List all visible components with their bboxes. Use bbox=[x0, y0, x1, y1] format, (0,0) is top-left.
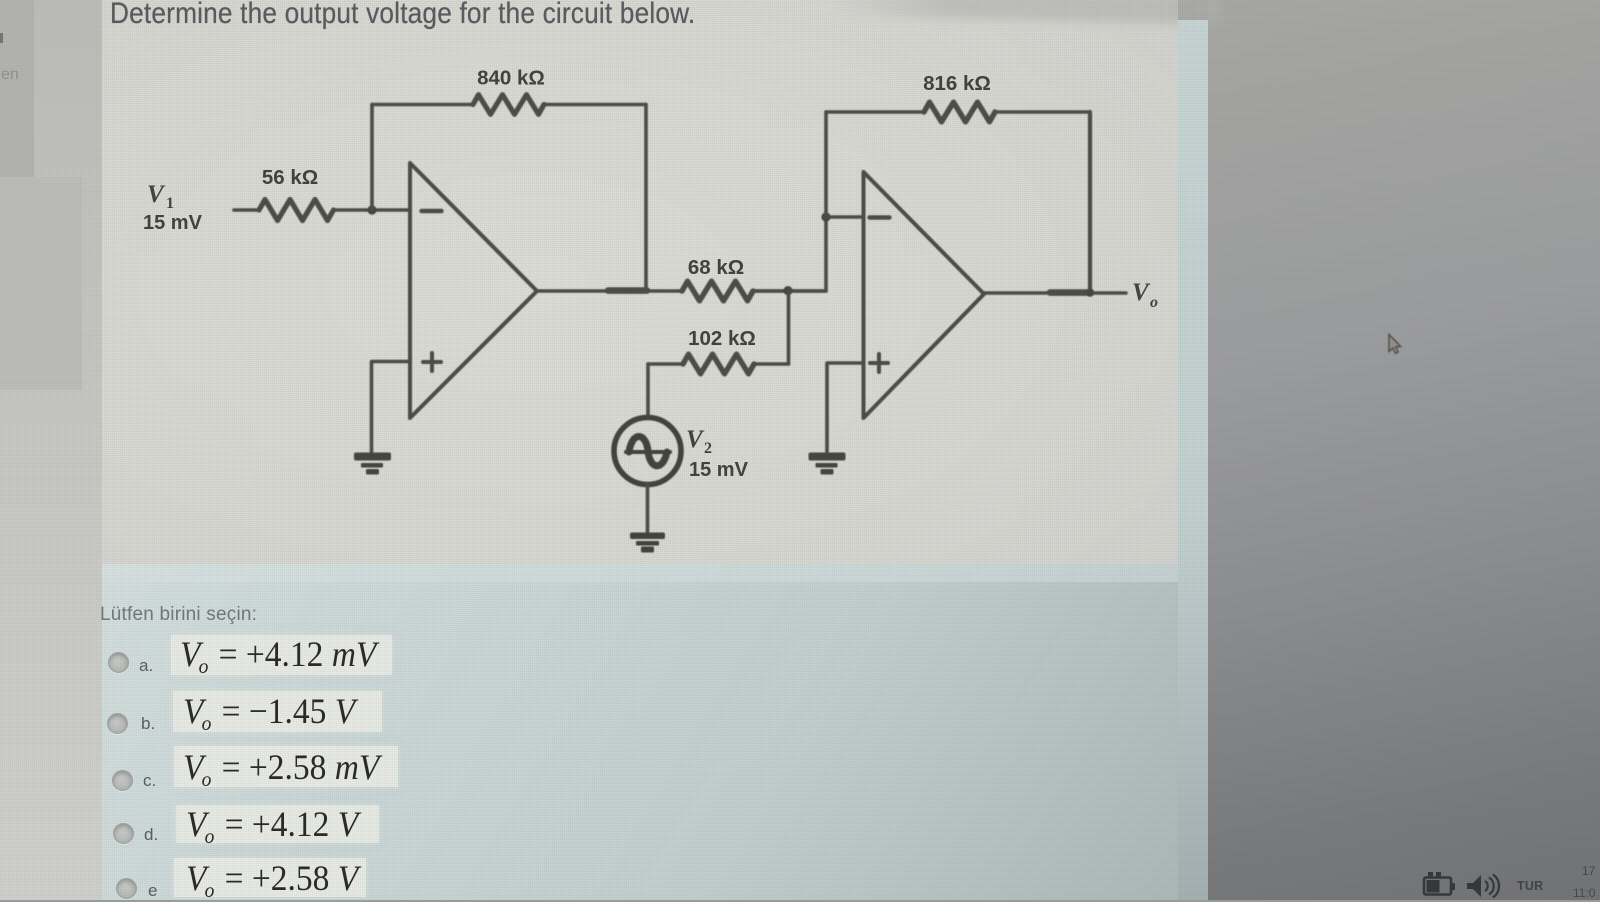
svg-text:816 kΩ: 816 kΩ bbox=[923, 72, 991, 95]
svg-text:o: o bbox=[1150, 294, 1158, 311]
svg-text:840 kΩ: 840 kΩ bbox=[477, 67, 545, 90]
wire feedback top left U1 bbox=[372, 103, 473, 107]
wire 102k right lead bbox=[754, 362, 789, 366]
node B junction dot bbox=[783, 286, 792, 295]
svg-text:102 kΩ: 102 kΩ bbox=[688, 327, 756, 350]
wire U1 output thick segment bbox=[608, 287, 647, 294]
svg-text:68 kΩ: 68 kΩ bbox=[688, 256, 744, 279]
node A junction dot bbox=[367, 205, 376, 214]
source V2 circle bbox=[614, 418, 681, 485]
U1 plus pin label bbox=[423, 353, 441, 371]
wire node B to U2 riser bbox=[824, 217, 828, 291]
svg-text:V: V bbox=[686, 426, 705, 453]
option e bbox=[116, 878, 137, 899]
U2 plus pin label bbox=[870, 354, 888, 372]
wire U2 noninverting to ground bbox=[827, 363, 864, 452]
svg-text:2: 2 bbox=[704, 440, 712, 457]
wire U1 noninverting to ground bbox=[372, 362, 411, 453]
wire node C to U2 inverting input bbox=[826, 215, 863, 219]
U1 minus pin label bbox=[422, 209, 442, 213]
svg-text:V: V bbox=[1132, 279, 1151, 306]
battery icon bbox=[1424, 872, 1455, 895]
wire 68k to node B bbox=[753, 289, 826, 293]
wire source V2 stem top bbox=[646, 364, 650, 417]
wire feedback top right U1 bbox=[545, 103, 646, 107]
svg-text:17: 17 bbox=[1582, 864, 1596, 878]
resistor R3 68k zigzag bbox=[682, 281, 753, 301]
ground G1 bbox=[354, 453, 391, 475]
op-amp U2 triangle bbox=[864, 172, 985, 418]
node C junction dot bbox=[821, 212, 830, 221]
wire node B down to 102k bbox=[787, 291, 791, 364]
resistor R5 816k zigzag bbox=[924, 102, 995, 122]
svg-text:15 mV: 15 mV bbox=[143, 212, 203, 234]
wire feedback drop U2 bbox=[1088, 112, 1092, 293]
svg-text:TUR: TUR bbox=[1517, 879, 1543, 893]
wire 102k left lead bbox=[648, 362, 683, 366]
resistor R1 56k zigzag bbox=[259, 200, 334, 221]
option a bbox=[108, 652, 129, 673]
source V2 sine glyph bbox=[626, 450, 670, 454]
resistor R2 840k zigzag bbox=[473, 95, 544, 115]
wire U2 output thick segment bbox=[1050, 289, 1090, 296]
wire source V2 stem bottom bbox=[646, 485, 650, 533]
resistor R4 102k zigzag bbox=[683, 354, 754, 374]
wire feedback riser left U2 bbox=[824, 112, 828, 217]
ground G3 bbox=[809, 453, 846, 475]
svg-text:V: V bbox=[147, 181, 166, 208]
op-amp U1 triangle bbox=[410, 163, 537, 418]
option d bbox=[113, 823, 134, 844]
svg-text:15 mV: 15 mV bbox=[689, 459, 749, 481]
wire feedback drop U1 bbox=[644, 105, 648, 291]
speaker icon bbox=[1467, 875, 1499, 898]
svg-text:11:0: 11:0 bbox=[1573, 886, 1596, 900]
option c bbox=[112, 770, 133, 791]
wire feedback top right U2 bbox=[995, 110, 1090, 114]
wire input lead V1 bbox=[234, 208, 259, 212]
ground G2 bbox=[630, 533, 665, 553]
svg-text:1: 1 bbox=[166, 195, 174, 212]
mouse cursor bbox=[1389, 335, 1401, 354]
wire feedback top left U2 bbox=[826, 110, 924, 114]
node D junction dot bbox=[1086, 288, 1094, 296]
wire R1 to inverting input U1 bbox=[334, 208, 410, 212]
wire U2 output Vo bbox=[984, 291, 1126, 295]
U2 minus pin label bbox=[870, 215, 890, 219]
svg-text:56 kΩ: 56 kΩ bbox=[262, 166, 318, 189]
option b bbox=[107, 713, 128, 734]
wire feedback riser left U1 bbox=[370, 105, 374, 211]
wire U1 output bbox=[537, 289, 682, 293]
